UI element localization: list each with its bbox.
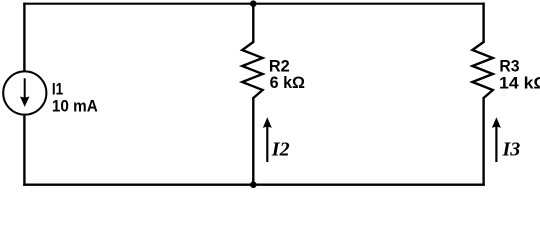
wire right lower bbox=[482, 97, 484, 186]
svg-text:6 kΩ: 6 kΩ bbox=[270, 73, 305, 92]
wire left upper bbox=[23, 3, 25, 72]
svg-text:14 kΩ: 14 kΩ bbox=[499, 73, 540, 93]
current arrow I3 bbox=[492, 117, 501, 162]
wire top bbox=[23, 3, 484, 5]
current source I1 bbox=[3, 71, 46, 114]
wire middle lower bbox=[252, 97, 254, 186]
junction dot bottom bbox=[250, 181, 257, 188]
resistor R2 bbox=[242, 42, 262, 98]
svg-text:10 mA: 10 mA bbox=[52, 97, 98, 116]
current arrow I2 bbox=[263, 117, 272, 162]
junction dot top bbox=[250, 0, 257, 7]
resistor R3 bbox=[472, 42, 492, 98]
wire bottom bbox=[23, 183, 484, 185]
svg-text:I3: I3 bbox=[502, 138, 521, 160]
wire left lower bbox=[23, 114, 25, 186]
svg-text:I2: I2 bbox=[271, 138, 290, 160]
wire right upper bbox=[482, 3, 484, 43]
wire middle upper bbox=[252, 3, 254, 43]
